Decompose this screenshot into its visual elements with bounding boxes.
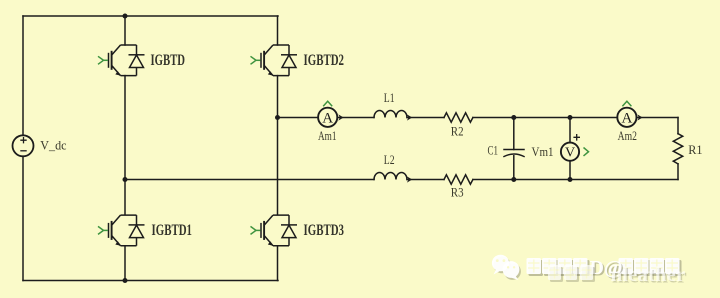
svg-text:Am1: Am1 bbox=[318, 128, 337, 143]
svg-text:Am2: Am2 bbox=[618, 128, 637, 143]
svg-text:R1: R1 bbox=[688, 142, 702, 157]
svg-text:R3: R3 bbox=[451, 185, 464, 200]
svg-text:R2: R2 bbox=[451, 124, 464, 139]
svg-text:Vm1: Vm1 bbox=[532, 144, 554, 159]
svg-text:A: A bbox=[322, 111, 333, 127]
svg-text:IGBTD: IGBTD bbox=[151, 52, 186, 69]
svg-text:C1: C1 bbox=[488, 143, 499, 158]
svg-text:nleather: nleather bbox=[611, 262, 686, 286]
svg-text:L1: L1 bbox=[384, 90, 395, 105]
svg-text:V_dc: V_dc bbox=[40, 138, 66, 153]
svg-text:IGBTD3: IGBTD3 bbox=[304, 222, 345, 239]
svg-text:V: V bbox=[565, 146, 575, 161]
svg-text:A: A bbox=[621, 111, 632, 127]
svg-text:IGBTD2: IGBTD2 bbox=[304, 52, 345, 69]
svg-text:L2: L2 bbox=[384, 152, 395, 167]
svg-text:IGBTD1: IGBTD1 bbox=[152, 222, 193, 239]
